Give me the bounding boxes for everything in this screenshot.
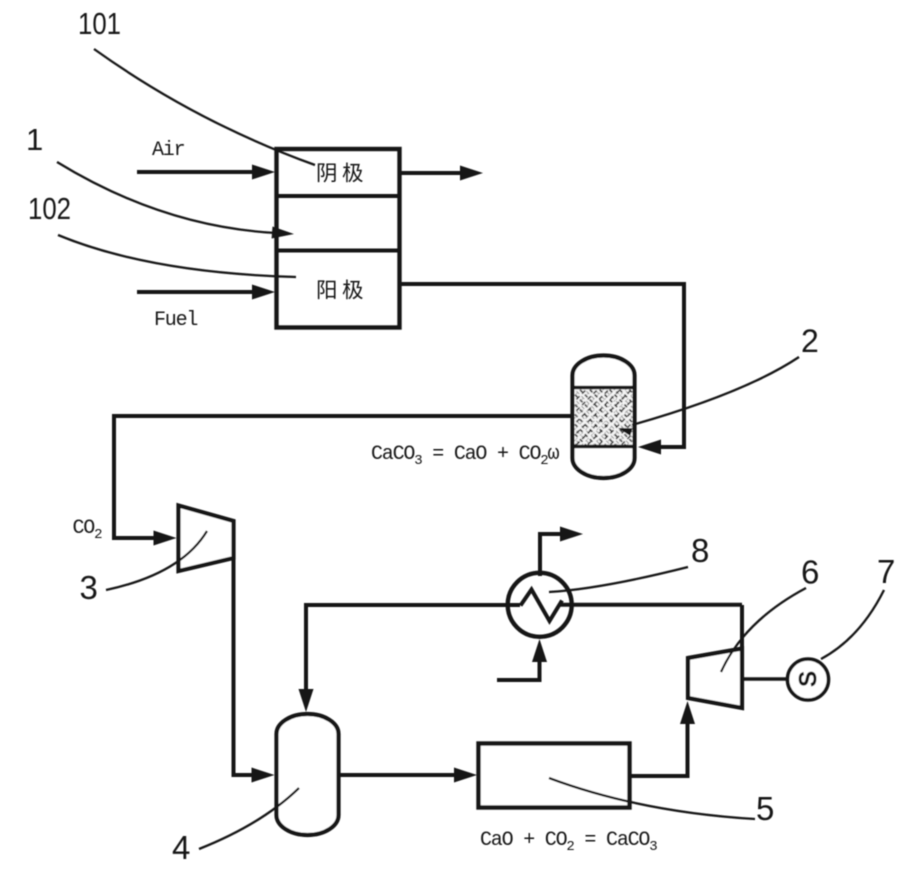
leader line 6 [721, 588, 806, 672]
label: cathode 极 [343, 162, 363, 182]
wire: Fuel inlet [137, 290, 254, 294]
arrowhead: anode gas into calciner 2 [638, 440, 661, 455]
wire: turbine 6 shaft to generator 7 [742, 677, 787, 681]
svg-text:3: 3 [80, 569, 98, 606]
leader line 1 into electrolyte [57, 162, 276, 233]
electrolyte/anode divider [277, 249, 400, 253]
wire: recycle line from heat exchanger 8 to carbonator top [306, 605, 520, 694]
svg-text:1: 1 [26, 122, 43, 157]
arrowhead: leader 2 [618, 428, 633, 436]
wire: carbonator outlet to reactor 5 [339, 773, 460, 777]
arrowhead: into reactor 5 [454, 768, 477, 783]
arrowhead: CO2 into compressor 3 [154, 531, 177, 546]
svg-text:Air: Air [152, 139, 185, 162]
reactor box 5 [479, 744, 630, 808]
arrowhead: leader 1 [272, 227, 294, 239]
arrowhead: heat exchanger vent [560, 527, 583, 542]
svg-text:Fuel: Fuel [154, 309, 197, 332]
label: anode 极 [343, 279, 363, 299]
leader line 5 [549, 778, 755, 819]
svg-text:6: 6 [801, 554, 819, 591]
leader line 4 [199, 788, 299, 849]
arrowhead: Fuel into anode [252, 285, 275, 300]
wire: heat exchanger top vent [540, 534, 562, 576]
leader line 3 [106, 531, 207, 590]
svg-text:4: 4 [172, 829, 190, 866]
wire: cathode exhaust outlet [400, 171, 462, 175]
wire: heat exchanger bottom feed [497, 658, 540, 680]
compressor 3 (trapezoid) [179, 506, 234, 572]
svg-text:101: 101 [78, 6, 121, 41]
wire: anode outlet to calciner 2 [400, 284, 684, 447]
svg-text:102: 102 [28, 191, 71, 226]
svg-text:7: 7 [877, 553, 895, 590]
turbine 6 (expander trapezoid) [688, 649, 742, 709]
label: anode 阳 [318, 280, 336, 299]
leader line 7 [821, 590, 884, 659]
wire: Air inlet [137, 170, 254, 174]
leader line 102 [58, 235, 296, 277]
generator 7 (circle with S) [788, 659, 829, 700]
svg-text:CaCO3 = CaO + CO2ω: CaCO3 = CaO + CO2ω [371, 443, 559, 469]
leader line 2 [632, 357, 799, 425]
arrowhead: recycle into carbonator 4 top [299, 689, 314, 712]
calciner vessel 2 (capsule with hatched band) [573, 356, 635, 479]
wire: calciner outlet CO2 line to compressor 3 [114, 416, 573, 538]
cathode/electrolyte divider [277, 194, 400, 198]
svg-text:8: 8 [691, 532, 709, 569]
wire: reactor 5 outlet to turbine 6 [629, 718, 688, 776]
carbonator vessel 4 (capsule) [277, 714, 339, 835]
calciner 2 hatched solids band [573, 388, 635, 447]
arrowhead: into carbonator 4 left [252, 768, 275, 783]
svg-text:5: 5 [756, 790, 774, 827]
leader line 8 [549, 567, 688, 592]
wire: compressor outlet to carbonator 4 [234, 556, 258, 775]
wire: recycle line heat exchanger 8 to turbine side [559, 603, 742, 607]
svg-text:2: 2 [801, 323, 819, 359]
label: cathode 阴 [318, 163, 336, 182]
wire: heat exchanger to turbine inlet drop [740, 605, 744, 650]
heat exchanger 8 (circle with zigzag) [508, 573, 572, 637]
leader line 101 [94, 49, 315, 165]
fuel cell stack 101/102 [277, 149, 400, 328]
arrowhead: Air into cathode [252, 165, 275, 180]
arrowhead: heat exchanger feed [532, 639, 547, 662]
arrowhead: cathode exhaust [460, 166, 483, 181]
arrowhead: into turbine 6 [680, 701, 695, 724]
